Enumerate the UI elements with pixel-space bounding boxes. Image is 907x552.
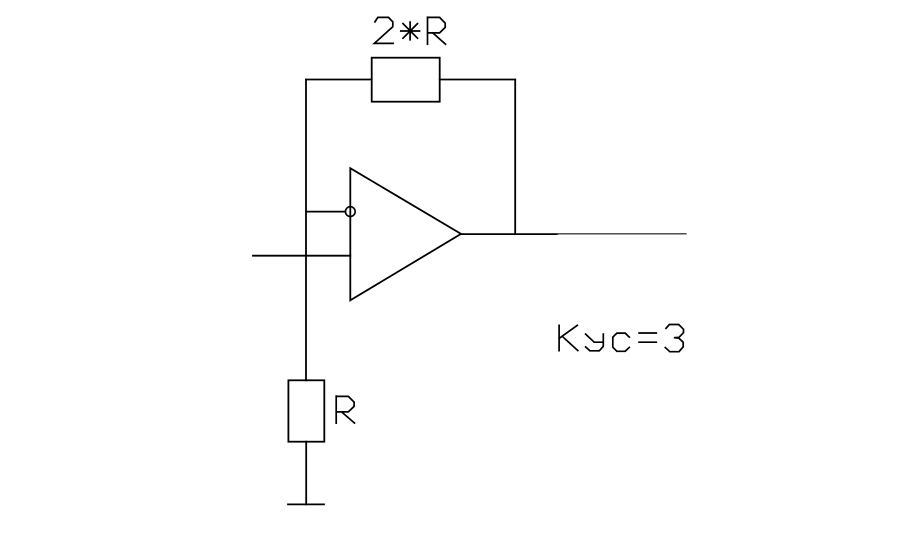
resistor 2*R (feedback) bbox=[372, 58, 440, 102]
wire feedback right horizontal bbox=[440, 79, 516, 81]
wire left vertical (node A) bbox=[305, 80, 307, 381]
wire output extension bbox=[557, 233, 686, 235]
glyph у bbox=[586, 334, 604, 351]
wire resistor to ground bbox=[305, 442, 307, 505]
op-amp U1 bbox=[350, 168, 461, 300]
wire inverting input bbox=[306, 211, 345, 213]
glyph = bbox=[639, 333, 656, 342]
label Кус=3 bbox=[559, 325, 683, 352]
wire feedback right vertical bbox=[514, 80, 516, 235]
glyph К bbox=[559, 325, 578, 350]
glyph * bbox=[401, 22, 420, 40]
label 2*R bbox=[374, 17, 445, 44]
glyph 3 bbox=[665, 325, 683, 352]
label R bbox=[336, 396, 354, 423]
wire output (op-amp to node) bbox=[461, 233, 557, 235]
inversion circle bbox=[345, 207, 355, 217]
glyph с bbox=[613, 333, 630, 351]
resistor R bbox=[288, 380, 324, 441]
wire feedback left horizontal bbox=[306, 79, 372, 81]
glyph 2 bbox=[374, 17, 393, 43]
wire non-inverting input bbox=[253, 255, 350, 257]
glyph R bbox=[428, 17, 446, 44]
ground bbox=[288, 503, 324, 505]
